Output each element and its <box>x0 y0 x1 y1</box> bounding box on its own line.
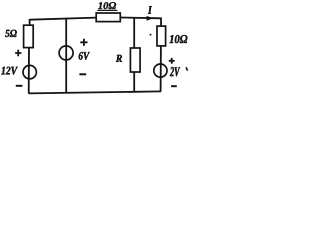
value label 12V <box>1 67 18 75</box>
minus sign of 2V source <box>171 85 177 87</box>
ink speck near right resistor <box>150 34 152 36</box>
value label 10ohm right <box>169 35 187 43</box>
minus sign of 6V source <box>79 73 86 75</box>
value label 6V <box>79 52 90 60</box>
wire left branch lower <box>28 48 30 94</box>
source 12V circle <box>23 65 36 78</box>
resistor 10ohm right box <box>157 26 166 46</box>
ink speck at right edge <box>186 67 188 70</box>
underline of 10ohm top label <box>97 9 117 11</box>
value label 5ohm <box>5 30 17 37</box>
wire 6V branch <box>65 19 67 93</box>
plus sign of 12V source <box>15 50 21 57</box>
wire top right segment <box>120 17 161 20</box>
resistor 10ohm top box <box>96 13 120 22</box>
minus sign of 12V source <box>16 85 23 87</box>
plus sign of 6V source <box>80 39 87 46</box>
plus sign of 2V source <box>169 58 175 64</box>
wire left branch top stub <box>29 19 31 26</box>
wire right branch top stub <box>160 18 162 27</box>
wire R branch lower <box>133 72 135 92</box>
resistor 5ohm box <box>24 25 34 47</box>
current label I <box>148 6 152 14</box>
source 2V circle <box>154 64 167 77</box>
wire R branch upper <box>133 18 135 49</box>
value label 10ohm top <box>98 2 116 9</box>
wire top left segment <box>30 18 97 20</box>
wire right branch lower <box>160 46 162 92</box>
resistor R box <box>130 48 140 72</box>
current arrow I <box>147 16 154 21</box>
source 6V circle <box>59 46 73 60</box>
value label 2V <box>170 67 180 76</box>
wire bottom <box>29 91 161 93</box>
value label R <box>116 55 122 62</box>
